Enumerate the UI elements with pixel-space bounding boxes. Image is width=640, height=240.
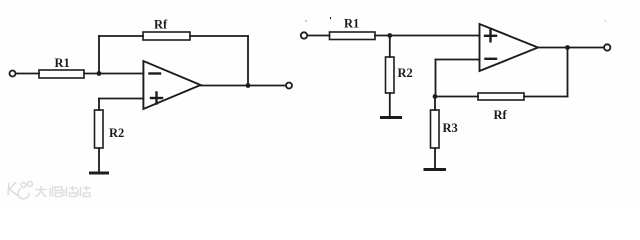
svg-text:Rf: Rf xyxy=(494,108,508,122)
wire: top rail to Rf left xyxy=(99,35,143,37)
wire: feedback vertical up to output rail xyxy=(567,48,569,97)
node: junction of R1 / Rf / op-amp minus xyxy=(97,71,102,76)
wire: feedback rail to Rf xyxy=(436,96,479,98)
wire: R1 to op-amp inverting input xyxy=(84,73,143,75)
wire: U2 output rail xyxy=(538,47,604,49)
scan artifact: faint mark above right output terminal xyxy=(604,19,607,23)
minus symbol at U1 inverting input xyxy=(150,72,161,74)
watermark logo (bottom left) xyxy=(8,182,32,199)
node: output junction with feedback xyxy=(565,45,570,50)
op-amp U2 (right circuit) xyxy=(480,24,539,71)
wire: inverting input down to feedback rail xyxy=(435,60,437,97)
svg-text:Rf: Rf xyxy=(154,18,168,32)
ground (left circuit) xyxy=(91,172,108,175)
wire: Rf right to output vertical xyxy=(190,35,248,37)
plus symbol at U1 non-inverting input xyxy=(151,93,162,104)
wire: R1 to op-amp non-inverting input xyxy=(375,35,480,37)
svg-text:R1: R1 xyxy=(344,17,359,31)
wire: junction down to R2 xyxy=(389,36,391,58)
svg-text:R1: R1 xyxy=(55,56,70,70)
resistor R1 (right circuit) xyxy=(330,32,376,40)
wire: non-inverting input rail xyxy=(99,98,143,100)
resistor R2 (right circuit) xyxy=(386,57,395,93)
resistor Rf (left circuit) xyxy=(143,32,190,40)
watermark characters (bottom left) xyxy=(35,186,91,197)
wire: U2 inverting input to left xyxy=(436,59,480,61)
resistor Rf (right circuit) xyxy=(478,93,524,100)
wire: U1 output rail xyxy=(201,85,286,87)
svg-text:R2: R2 xyxy=(109,126,124,140)
svg-text:R2: R2 xyxy=(398,66,413,80)
plus symbol at U2 non-inverting input xyxy=(485,30,496,41)
node: junction of R3 / Rf / inverting branch xyxy=(433,94,438,99)
wire: Rf to output vertical xyxy=(524,96,568,98)
wire: R3 from junction down xyxy=(434,97,436,111)
op-amp U1 (left circuit) xyxy=(143,61,200,109)
output terminal T2 (left circuit) xyxy=(286,83,292,89)
minus symbol at U2 inverting input xyxy=(486,58,497,60)
node: junction of R1 / R2 / op-amp plus xyxy=(387,33,392,38)
wire: corner down to R2 xyxy=(98,99,100,111)
wire: left input terminal to R1 xyxy=(16,73,39,75)
scan artifact: faint dot left of right R1 label xyxy=(305,20,307,22)
wire: feedback vertical down to output rail xyxy=(247,36,249,86)
input terminal T3 (right circuit) xyxy=(301,32,307,38)
input terminal T1 (left circuit) xyxy=(10,71,16,77)
wire: R2 bottom to ground xyxy=(389,93,391,116)
output terminal T4 (right circuit) xyxy=(604,44,610,50)
wire: right input terminal to R1 xyxy=(308,35,330,37)
svg-text:R3: R3 xyxy=(443,121,458,135)
resistor R3 (right circuit) xyxy=(431,110,440,148)
node: output junction with feedback xyxy=(246,83,251,88)
wire: junction up to feedback rail xyxy=(98,36,100,74)
wire: R3 bottom to ground xyxy=(434,148,436,168)
resistor R2 (left circuit) xyxy=(95,110,104,148)
ground (right circuit R3) xyxy=(425,168,445,171)
resistor R1 (left circuit) xyxy=(39,70,84,78)
svg-text:': ' xyxy=(329,15,332,27)
ground (right circuit R2) xyxy=(382,116,401,119)
wire: R2 bottom to ground xyxy=(98,148,100,172)
